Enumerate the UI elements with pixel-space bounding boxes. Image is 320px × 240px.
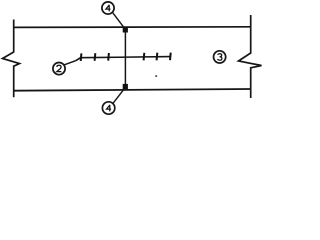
tick 6 (line end) (169, 53, 172, 61)
stitch weld line (76, 57, 170, 61)
balloon 4 bottom label (107, 105, 112, 112)
balloon 2 circle (53, 63, 65, 75)
tick 5 (156, 53, 159, 61)
balloon 4 top label (106, 5, 111, 11)
tick 1 (80, 53, 83, 61)
leader to bottom node (113, 88, 125, 103)
tick 3 (107, 53, 110, 61)
stray speck (155, 75, 157, 77)
balloon 3 circle (214, 51, 226, 63)
leader from balloon 2 to stitch line (64, 61, 76, 65)
tick 4 (143, 53, 146, 61)
bottom node (filled square) (123, 84, 128, 89)
balloon 2 label (57, 65, 62, 71)
plate bottom edge line (14, 89, 251, 91)
left break line (3, 20, 20, 98)
leader to top node (113, 13, 125, 28)
balloon 4 top circle (102, 2, 114, 14)
top node (filled square) (123, 27, 128, 33)
right break line (239, 15, 262, 98)
plate top edge line (14, 26, 251, 29)
tick 2 (94, 53, 97, 61)
balloon 4 bottom circle (102, 102, 114, 114)
balloon 3 label (217, 54, 222, 61)
center joint vertical line (124, 27, 126, 89)
